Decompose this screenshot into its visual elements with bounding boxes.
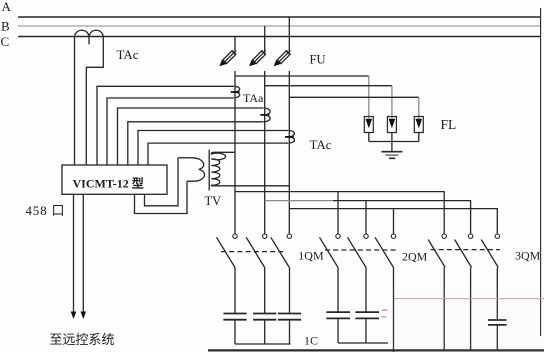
svg-text:TAa: TAa — [243, 91, 264, 105]
svg-text:至远控系统: 至远控系统 — [50, 332, 115, 347]
watermark pink dash b — [382, 316, 387, 318]
wire 1C bottoms to bus — [235, 320, 291, 344]
transformer TAa (CT on drop 1) — [231, 86, 240, 97]
transformer TAc (left CT on bus C) — [75, 30, 104, 44]
transformer TAc (CT on drop 3) — [285, 131, 294, 144]
capacitor 2C a — [326, 312, 350, 318]
wire TAc-left secondary 2 — [86, 37, 103, 166]
wire 3QM pole leads — [444, 268, 497, 351]
transformer TAb (CT on drop 2) — [260, 108, 270, 122]
svg-text:3QM: 3QM — [515, 249, 541, 263]
capacitor-bank bottom border line — [208, 349, 544, 351]
wire FL bottoms to common — [369, 133, 419, 142]
svg-text:1C: 1C — [304, 334, 318, 348]
wire 2QM p2 tap — [365, 201, 367, 234]
svg-text:VICMT-12 型: VICMT-12 型 — [73, 176, 144, 191]
svg-text:A: A — [2, 0, 12, 14]
wire 2QM p3 tap — [393, 209, 395, 234]
watermark pink dash a — [382, 309, 388, 311]
wire 2QM pole leads — [338, 268, 394, 352]
svg-text:FU: FU — [310, 53, 326, 67]
wire TV primary top to drop 1 — [214, 151, 235, 153]
capacitor 2C b — [355, 312, 379, 318]
wire FL feed 1 — [235, 75, 369, 77]
wire TAc secondary bottom — [148, 143, 288, 165]
arrowhead remote 2 — [81, 312, 87, 320]
wire right border vertical — [540, 8, 542, 336]
wire FL feed 2 — [265, 85, 392, 87]
transformer TV core — [208, 150, 210, 191]
wire output arrow 2 to remote — [82, 194, 84, 313]
node A (phase bus A) — [18, 16, 541, 18]
wire TAa secondary top — [97, 86, 234, 165]
wire TAc-left secondary 1 — [74, 37, 76, 166]
transformer TV secondary lead inner — [145, 158, 179, 206]
fuse FU 3 (drop-out) — [272, 48, 293, 69]
transformer TV primary winding — [211, 152, 225, 186]
arrester FL 1 — [364, 117, 373, 133]
svg-text:TAc: TAc — [310, 137, 332, 152]
arrester FL 3 — [414, 117, 423, 133]
wire output arrow 1 to remote — [73, 194, 75, 313]
wire TAc secondary top — [138, 131, 288, 166]
svg-text:TAc: TAc — [117, 47, 139, 62]
wire H2 feeder (drop1 to 3QM p1) — [235, 192, 444, 234]
wire H3 feeder (drop2 to 3QM p2) — [265, 200, 333, 202]
wire TAb secondary top — [118, 108, 264, 165]
switch 2QM — [320, 234, 397, 268]
wire FL feed 3 — [289, 96, 419, 98]
svg-text:1QM: 1QM — [298, 249, 324, 263]
node C (phase bus C) — [18, 36, 541, 38]
svg-text:TV: TV — [205, 194, 222, 208]
wire drop 2 upper stub (from bus B) — [264, 26, 266, 53]
wire 2QM bottoms to bus — [338, 318, 388, 343]
svg-text:C: C — [1, 34, 10, 49]
watermark faint wash — [390, 288, 544, 352]
capacitor 1C c — [278, 314, 301, 320]
svg-text:458 口: 458 口 — [26, 203, 66, 218]
wire drop 2 main vertical — [264, 71, 266, 234]
arrester FL 2 — [387, 117, 396, 133]
arrowhead remote 1 — [71, 312, 77, 320]
node B (phase bus B) — [18, 25, 541, 27]
wire drop 3 upper stub (from bus A) — [288, 17, 290, 53]
wire drop 1 upper stub (from bus C) — [234, 37, 236, 53]
capacitor 1C a — [223, 314, 246, 320]
svg-text:B: B — [1, 19, 10, 34]
wire 2QM p1 tap — [337, 192, 339, 234]
wire H1 TV primary bottom to drop 3 — [214, 185, 289, 187]
wire TAb secondary bottom — [128, 122, 264, 165]
wire faint neutral line right — [394, 298, 544, 300]
wire H4 feeder (drop3 to 3QM p3) — [289, 209, 497, 234]
fuse FU 2 (drop-out) — [247, 48, 268, 69]
transformer TV secondary winding — [178, 158, 204, 181]
wire 3C bottom lead — [496, 325, 498, 350]
wire drop 3 main vertical — [288, 71, 290, 234]
switch 3QM — [428, 234, 500, 268]
switch 1QM — [217, 234, 292, 268]
fuse FU 1 (drop-out) — [217, 48, 238, 69]
capacitor 1C b — [253, 314, 276, 320]
svg-text:FL: FL — [441, 117, 457, 132]
wire 1QM pole leads — [235, 268, 290, 314]
capacitor 3C — [488, 320, 507, 325]
transformer TV secondary lead outer — [135, 181, 188, 213]
svg-text:2QM: 2QM — [402, 250, 428, 264]
wire TAa secondary bottom — [107, 98, 234, 165]
ground — [381, 142, 402, 159]
op box U1 VICMT-12 — [62, 165, 167, 194]
wire drop 1 main vertical — [234, 71, 236, 234]
